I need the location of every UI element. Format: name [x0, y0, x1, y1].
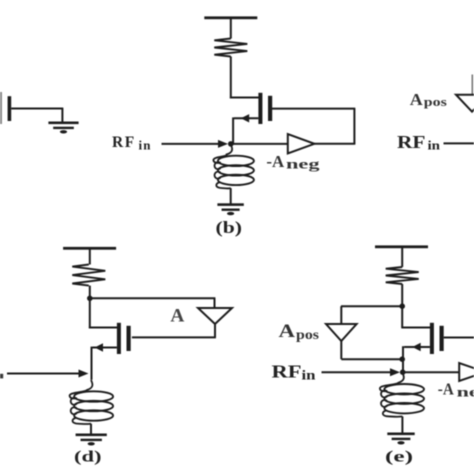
svg-text:(d): (d)	[74, 449, 102, 466]
svg-text:A: A	[410, 90, 424, 109]
svg-text:neg: neg	[286, 157, 320, 172]
svg-text:pos: pos	[424, 94, 447, 109]
svg-text:in: in	[302, 368, 317, 383]
svg-text:(e): (e)	[385, 449, 413, 466]
svg-text:A: A	[170, 306, 185, 326]
svg-text:A: A	[279, 321, 296, 342]
svg-text:RF: RF	[397, 132, 426, 152]
svg-text:in: in	[139, 138, 152, 153]
svg-text:RF: RF	[112, 134, 136, 151]
svg-text:(b): (b)	[216, 218, 243, 237]
svg-text:pos: pos	[296, 327, 319, 342]
svg-text:-A: -A	[266, 152, 285, 171]
svg-text:in: in	[428, 138, 441, 153]
svg-text:neg: neg	[457, 385, 474, 400]
svg-text:RF: RF	[272, 362, 302, 382]
svg-text:-A: -A	[438, 380, 455, 399]
